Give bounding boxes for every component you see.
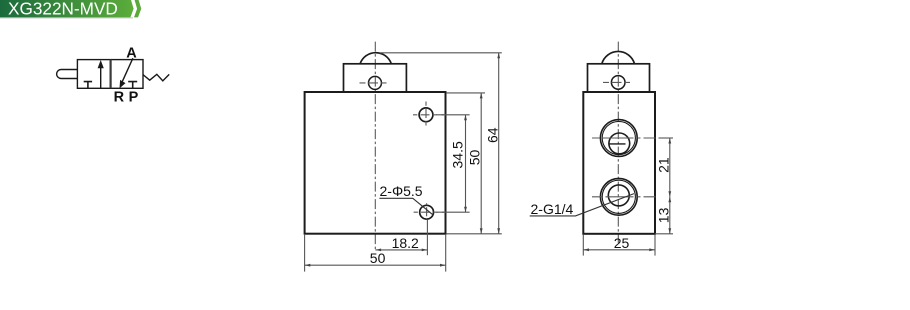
port bottom thread ring [602,180,635,213]
svg-text:13: 13 [656,207,672,223]
ext line bottom left [304,235,306,272]
spring [143,74,169,81]
ext line body bottom side [655,233,673,235]
side valve body [583,92,655,234]
dimension 34.5 [465,115,467,212]
svg-text:50: 50 [467,150,483,166]
ext line bottom right [445,235,447,272]
right T port (closed) [128,82,137,89]
leader 2-PHI5.5 [379,198,433,215]
up arrow head [98,60,104,68]
center line vertical side [617,42,619,243]
banner shadow [0,17,133,18]
mounting hole bottom [420,205,434,219]
port bottom inner hole [608,185,629,206]
up arrow flow path [100,67,102,89]
banner chevron [134,0,141,17]
svg-text:25: 25 [614,235,630,251]
diagonal flow path A to R [121,58,133,84]
dimension 21 [669,138,671,197]
plunger actuator [57,70,78,79]
valve body [305,92,446,234]
dimension 18.2 [375,249,427,251]
diagonal arrow head [120,80,126,89]
dimension 50 vertical [480,93,482,234]
hole top crosshair [413,102,444,128]
ext line body bottom right [446,233,502,235]
valve center divider [109,60,111,89]
ext line side bottom right [654,235,656,256]
banner XG322N-MVD [0,0,134,17]
side dome button [602,51,635,63]
valve body box [77,60,143,89]
svg-text:2-Φ5.5: 2-Φ5.5 [380,183,423,199]
dimension 13 [669,197,671,234]
ext line side bottom left [582,235,584,256]
left T port (closed) [84,82,92,89]
svg-text:P: P [129,89,139,105]
ext line dome top [379,52,502,54]
mounting hole top [419,108,433,122]
svg-text:XG322N-MVD: XG322N-MVD [8,0,118,18]
dimension 50 bottom [305,264,446,266]
svg-text:18.2: 18.2 [392,235,419,251]
housing screw circle [369,76,382,89]
ext line body top [446,92,485,94]
svg-text:21: 21 [656,157,672,173]
svg-text:A: A [126,45,137,61]
port top thread ring [602,121,635,154]
center line vertical [374,42,376,251]
ext line port top [659,137,674,139]
port bottom center line horizontal [592,196,656,198]
side housing screw circle [611,76,625,90]
leader 2-G1/4 [530,194,634,216]
ext line hole bottom [426,220,428,256]
dome button [360,53,391,64]
port bottom outer [600,178,637,215]
side actuator housing [588,64,650,92]
dimension 64 [498,53,500,234]
side housing screw center line [603,81,634,83]
svg-text:2-G1/4: 2-G1/4 [531,201,574,217]
dimension 25 [583,249,655,251]
housing screw center line [360,82,391,84]
port top outer [600,120,637,157]
actuator housing [344,64,407,92]
hole bottom crosshair [414,203,444,219]
svg-text:R: R [114,89,125,105]
svg-text:50: 50 [370,250,386,266]
port top chord [609,143,626,145]
port top inner hole [609,133,630,154]
ext line bottom hole right [437,211,470,213]
svg-text:34.5: 34.5 [449,141,465,168]
svg-text:64: 64 [484,127,500,143]
port top center line horizontal [592,137,656,139]
ext line top hole [437,114,470,116]
